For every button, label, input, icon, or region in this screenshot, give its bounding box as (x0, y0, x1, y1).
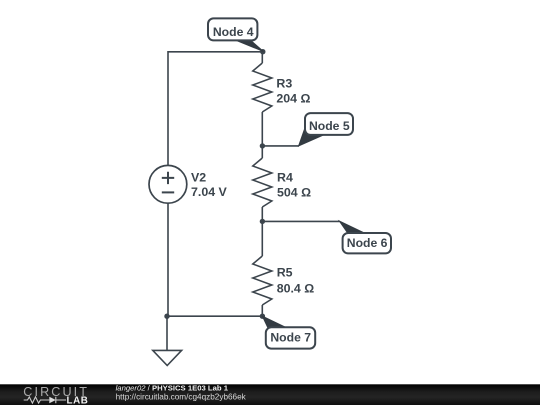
circuitlab logo wire squiggle (24, 397, 50, 403)
node 4 callout box (208, 18, 257, 40)
node 7 callout box (266, 327, 315, 348)
junction dot node 7 (260, 314, 265, 319)
node 6 callout box (343, 233, 391, 253)
svg-text:R4: R4 (277, 171, 293, 185)
wire left vertical upper (node4 corner to V2 top) (167, 51, 169, 165)
resistor R3 (253, 63, 272, 112)
svg-text:langer02 / PHYSICS 1E03 Lab 1: langer02 / PHYSICS 1E03 Lab 1 (116, 383, 229, 392)
V2 plus sign (162, 172, 174, 184)
junction dot node 6 (260, 219, 265, 224)
junction dot ground (164, 314, 169, 319)
node 5 callout tail (299, 126, 324, 146)
svg-text:R5: R5 (277, 266, 293, 280)
wire right column segment R4 to R5 (261, 207, 263, 256)
wire bottom horizontal (167, 315, 262, 317)
junction dot node 5 (260, 143, 265, 148)
svg-text:Node 4: Node 4 (213, 25, 254, 39)
wire right column segment above R3 (261, 52, 263, 63)
node 5 callout box (305, 113, 353, 135)
ground (153, 350, 182, 365)
junction dot node 4 (260, 49, 265, 54)
svg-text:http://circuitlab.com/cg4qzb2y: http://circuitlab.com/cg4qzb2yb66ek (116, 392, 247, 401)
svg-text:V2: V2 (191, 171, 206, 185)
wire right column segment R5 to bottom (261, 305, 263, 316)
wire left vertical lower (V2 bottom to bottom wire) (167, 203, 169, 316)
svg-text:Node 5: Node 5 (309, 119, 350, 133)
node 7 callout tail (262, 316, 288, 328)
wire node6 stub (262, 220, 340, 222)
footer bar (0, 384, 540, 405)
wire right column segment R3 to R4 (261, 112, 263, 158)
circuitlab logo diode bar and wire (56, 397, 66, 404)
svg-text:Node 6: Node 6 (347, 236, 388, 250)
resistor R5 (253, 256, 272, 305)
svg-text:204 Ω: 204 Ω (276, 91, 310, 105)
node 4 callout tail (234, 39, 264, 51)
svg-text:504 Ω: 504 Ω (277, 186, 311, 200)
wire top horizontal from V2 column to R3 top (168, 51, 262, 53)
svg-text:R3: R3 (276, 76, 292, 90)
svg-text:LAB: LAB (67, 396, 89, 405)
node 6 callout tail (339, 221, 364, 233)
svg-text:7.04 V: 7.04 V (191, 185, 228, 199)
svg-text:Node 7: Node 7 (270, 331, 311, 345)
wire node5 stub (262, 145, 299, 147)
svg-text:80.4 Ω: 80.4 Ω (277, 282, 315, 296)
V2 minus sign (162, 191, 174, 193)
circuitlab logo diode (49, 397, 56, 404)
resistor R4 (253, 158, 272, 207)
voltage source V2 circle (149, 165, 187, 203)
wire ground stub (166, 316, 168, 350)
